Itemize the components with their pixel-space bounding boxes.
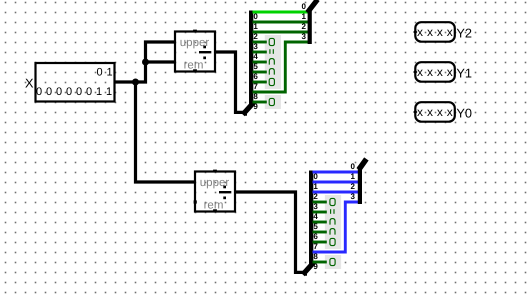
svg-text:1: 1 <box>302 12 307 21</box>
wire bit0 S3 to S4 (floating) <box>313 171 359 174</box>
S3 trunk <box>309 171 313 266</box>
svg-text:6: 6 <box>253 72 258 81</box>
svg-text:Y0: Y0 <box>456 106 472 121</box>
wire bit8 S3 riser to S4 bit3 <box>313 202 359 252</box>
S4 bit labels <box>351 162 356 201</box>
S3 bit labels <box>313 172 318 271</box>
svg-text:x: x <box>417 25 423 39</box>
wire: U1 quotient to splitter S1 origin <box>215 52 246 112</box>
svg-text:0: 0 <box>96 67 102 79</box>
svg-text:x: x <box>437 65 443 79</box>
wire: branch to divisor of U1 <box>146 60 176 63</box>
output pin Y2 <box>413 22 455 42</box>
S2 trunk <box>308 9 312 44</box>
S1 trunk <box>249 11 253 106</box>
svg-text:6: 6 <box>313 232 318 241</box>
S4 trunk <box>358 166 362 204</box>
svg-text:7: 7 <box>313 242 318 251</box>
output pin Y0 <box>413 102 455 122</box>
svg-text:1: 1 <box>106 67 112 79</box>
svg-text:1: 1 <box>106 86 112 98</box>
output pin Y1 <box>413 62 455 81</box>
svg-text:rem: rem <box>184 59 204 71</box>
svg-text:x: x <box>447 25 453 39</box>
svg-text:2: 2 <box>302 22 307 31</box>
divider U1 <box>175 30 215 72</box>
svg-text:x: x <box>427 105 433 119</box>
svg-text:3: 3 <box>302 32 307 41</box>
svg-text:5: 5 <box>253 62 258 71</box>
svg-text:3: 3 <box>253 42 258 51</box>
splitter S4 (4 to 1, bottom right) <box>351 161 365 204</box>
svg-text:0: 0 <box>313 172 318 181</box>
svg-text:1: 1 <box>253 22 258 31</box>
S1 bit labels <box>253 12 258 111</box>
svg-text:2: 2 <box>253 32 258 41</box>
svg-text:5: 5 <box>313 222 318 231</box>
svg-text:0: 0 <box>302 2 307 11</box>
wire: X out to node, up to divider U1 dividend/divisor <box>115 42 176 82</box>
S2 diagonal to north <box>309 2 316 11</box>
svg-text:0: 0 <box>351 162 356 171</box>
svg-text:7: 7 <box>253 82 258 91</box>
svg-text:x: x <box>417 65 423 79</box>
svg-text:3: 3 <box>351 192 356 201</box>
svg-text:x: x <box>427 25 433 39</box>
grey value strip S3 <box>325 195 341 249</box>
S4 diagonal to north <box>360 161 365 167</box>
svg-text:3: 3 <box>313 202 318 211</box>
grey value strip S1 <box>265 35 281 89</box>
input pin X (10-bit) <box>36 63 115 102</box>
S3 diagonal <box>305 264 313 272</box>
S1 value glyphs <box>269 38 274 105</box>
splitter S3 (1 to 10, blue/green) <box>305 171 319 273</box>
svg-text:0: 0 <box>46 86 52 98</box>
S1 diagonal <box>245 104 253 112</box>
svg-text:1: 1 <box>313 182 318 191</box>
wire bit0 S1 to S2 (value 1) <box>253 11 309 14</box>
S1 branch stubs <box>253 42 267 102</box>
svg-text:0: 0 <box>253 12 258 21</box>
svg-text:x: x <box>447 105 453 119</box>
svg-text:2: 2 <box>313 192 318 201</box>
wire bit8 S1 riser to S2 bit3 <box>253 42 309 92</box>
S3 value glyphs <box>330 198 335 265</box>
svg-text:Y1: Y1 <box>456 66 472 81</box>
svg-text:0: 0 <box>86 86 92 98</box>
svg-text:X: X <box>25 76 34 91</box>
svg-text:x: x <box>427 65 433 79</box>
svg-text:4: 4 <box>313 212 318 221</box>
svg-text:rem: rem <box>204 199 224 211</box>
svg-text:x: x <box>437 25 443 39</box>
svg-text:9: 9 <box>253 102 258 111</box>
svg-text:x: x <box>417 105 423 119</box>
wire bit2 S1 to S2 <box>253 31 309 34</box>
divider U2 <box>194 170 235 212</box>
svg-text:8: 8 <box>313 252 318 261</box>
svg-text:1: 1 <box>96 86 102 98</box>
svg-text:0: 0 <box>56 86 62 98</box>
svg-text:1: 1 <box>351 172 356 181</box>
S3 branch stubs <box>313 202 327 262</box>
svg-text:0: 0 <box>36 86 42 98</box>
splitter S1 (1 to 10, green) <box>245 11 259 113</box>
splitter S2 (4 to 1, top right) <box>302 2 316 45</box>
svg-text:2: 2 <box>351 182 356 191</box>
svg-text:0: 0 <box>66 86 72 98</box>
svg-text:8: 8 <box>253 92 258 101</box>
svg-text:4: 4 <box>253 52 258 61</box>
wire bit2 S3 to S4 <box>313 191 359 194</box>
svg-text:x: x <box>447 65 453 79</box>
node B junction <box>142 59 149 66</box>
wire bit1 S3 to S4 <box>313 181 359 184</box>
wire: node down to divider U2 <box>136 82 196 182</box>
node A junction <box>132 79 139 86</box>
svg-text:9: 9 <box>313 262 318 271</box>
svg-text:0: 0 <box>76 86 82 98</box>
wire bit1 S1 to S2 <box>253 21 309 24</box>
S2 bit labels <box>302 2 307 41</box>
wire: U2 quotient to splitter S3 origin <box>235 192 306 272</box>
svg-text:Y2: Y2 <box>456 26 472 41</box>
svg-text:x: x <box>437 105 443 119</box>
